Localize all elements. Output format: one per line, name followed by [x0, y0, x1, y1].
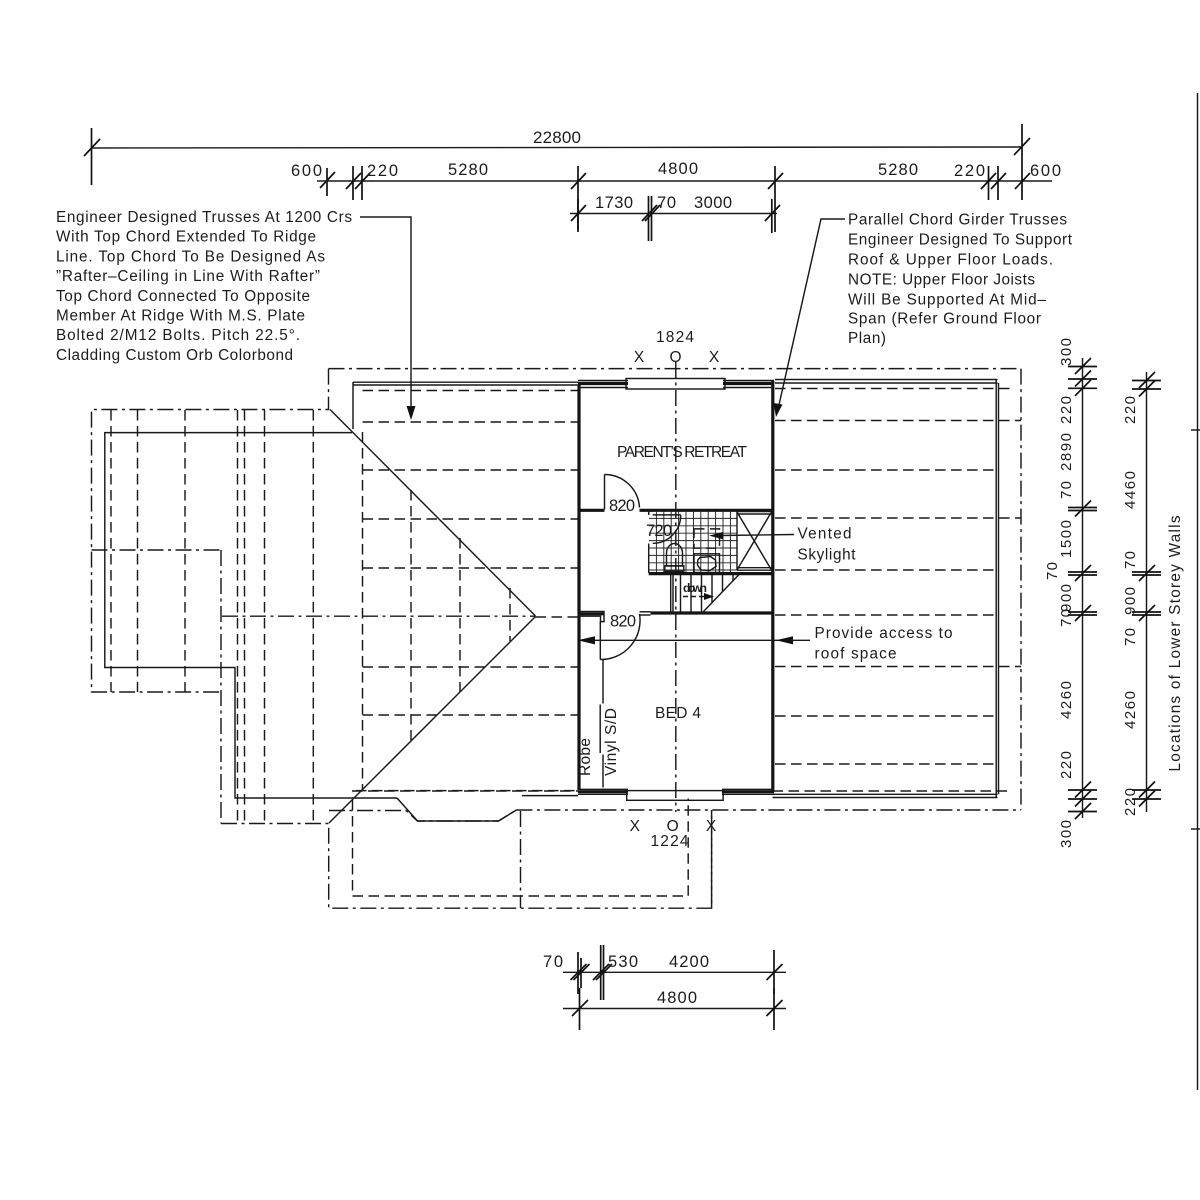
svg-text:roof space: roof space [815, 646, 897, 663]
svg-text:”Rafter–Ceiling in Line With R: ”Rafter–Ceiling in Line With Rafter” [56, 268, 320, 285]
svg-text:1224: 1224 [651, 833, 689, 850]
left lower-storey wall outline (solid) [105, 433, 397, 798]
leader arrow from right note to girder wall [774, 219, 846, 417]
svg-text:70: 70 [543, 953, 563, 971]
main roof left edge [353, 382, 578, 429]
svg-text:Plan): Plan) [848, 330, 886, 347]
svg-text:Top Chord Connected To Opposit: Top Chord Connected To Opposite [56, 288, 310, 305]
door 820 lower: leaf and swing [600, 613, 640, 660]
svg-text:X: X [630, 818, 641, 835]
svg-text:720: 720 [646, 522, 672, 540]
vanity with basin [694, 554, 720, 573]
svg-text:70: 70 [1044, 562, 1061, 580]
svg-text:Parallel Chord Girder Trusses: Parallel Chord Girder Trusses [848, 212, 1067, 229]
svg-text:Robe: Robe [577, 738, 594, 776]
right inner dimension line (300/220/2890/70/1500/70/900/70/4260/220/300) [1044, 338, 1097, 848]
sheet right border [1191, 93, 1200, 1090]
lower storey dashed rectangle below [353, 799, 689, 897]
svg-text:Line. Top Chord To Be Designed: Line. Top Chord To Be Designed As [56, 248, 325, 265]
svg-text:820: 820 [609, 497, 635, 515]
svg-text:Span (Refer Ground Floor: Span (Refer Ground Floor [848, 311, 1041, 328]
stairwell side wall [671, 575, 673, 612]
svg-text:220: 220 [1122, 396, 1139, 424]
svg-text:530: 530 [608, 953, 638, 971]
bathroom left wall and top step [649, 511, 653, 573]
svg-text:220: 220 [1058, 396, 1075, 424]
stair treads [681, 575, 734, 612]
wall parents retreat / bath with 820 door opening [578, 509, 773, 512]
window markers X O X 1224 (bottom) [630, 818, 717, 850]
svg-text:4460: 4460 [1122, 471, 1139, 509]
svg-text:4260: 4260 [1058, 681, 1075, 719]
svg-text:Locations of Lower Storey Wal: Locations of Lower Storey Walls [1167, 515, 1184, 771]
svg-text:70: 70 [1122, 551, 1139, 569]
right outer dimension line (220/4460/70/900/70/4260/220) [1122, 372, 1161, 816]
svg-text:900: 900 [1058, 584, 1075, 612]
svg-text:Member At Ridge With M.S. Plat: Member At Ridge With M.S. Plate [56, 308, 305, 325]
roof trusses right of unit (dashed) [775, 421, 1021, 765]
svg-text:1824: 1824 [656, 329, 694, 346]
svg-text:220: 220 [1122, 788, 1139, 816]
shower / skylight shaft over (dashed rect) [694, 529, 720, 548]
svg-text:900: 900 [1122, 587, 1139, 615]
svg-text:Cladding Custom Orb Colorbond: Cladding Custom Orb Colorbond [56, 347, 293, 364]
top wall hidden line left of unit (dashed) [363, 390, 579, 392]
bottom dimension line 4800 [563, 988, 786, 1030]
svg-text:down: down [683, 581, 707, 595]
svg-text:5280: 5280 [448, 161, 488, 179]
stair break diagonal [704, 575, 740, 612]
svg-text:O: O [669, 349, 681, 366]
svg-text:4800: 4800 [657, 989, 697, 1007]
svg-text:300: 300 [1058, 338, 1075, 366]
stairwell bottom wall [651, 611, 773, 614]
svg-text:820: 820 [610, 613, 636, 631]
svg-text:Provide access to: Provide access to [815, 625, 953, 642]
note: parallel chord girder trusses (right) [848, 212, 1073, 348]
svg-text:220: 220 [367, 162, 398, 180]
svg-text:Will Be Supported At Mid–: Will Be Supported At Mid– [848, 292, 1046, 309]
leader: provide access to roof space (double arrow) [578, 625, 953, 663]
svg-text:Vented: Vented [798, 526, 852, 543]
bottom dimension line 70/530/4200 [543, 945, 786, 1000]
window markers 1824 X O X (top) [634, 329, 720, 366]
porch step solid edges bottom-left [352, 791, 578, 821]
leader arrow from left note to roof truss [360, 217, 416, 420]
door 720 bath: leaf and swing [646, 515, 681, 543]
svg-text:300: 300 [1058, 820, 1075, 848]
svg-text:4200: 4200 [669, 953, 709, 971]
hidden wall lines right of unit (dashed) [773, 389, 1013, 792]
hidden grid verticals below bottom wall [711, 810, 713, 908]
svg-text:22800: 22800 [533, 128, 581, 147]
svg-text:600: 600 [1030, 162, 1061, 180]
note: engineer designed trusses (left) [56, 209, 352, 364]
vented skylight box with cross [737, 512, 772, 571]
svg-text:70: 70 [1122, 628, 1139, 646]
svg-text:70: 70 [1058, 481, 1075, 499]
wall bath bottom [649, 572, 773, 575]
svg-text:PARENT’S RETREAT: PARENT’S RETREAT [617, 444, 748, 461]
left roof truss verticals (dashed) [111, 410, 313, 823]
left roof gutter outline (dash-dot) [92, 369, 712, 909]
svg-text:220: 220 [954, 162, 985, 180]
svg-text:With Top Chord Extended To Rid: With Top Chord Extended To Ridge [56, 229, 316, 246]
unit left wall [577, 385, 580, 790]
svg-text:70: 70 [657, 194, 676, 212]
unit right wall [771, 381, 774, 792]
upper hip line [330, 410, 536, 617]
unit top wall with window 1824 [578, 379, 774, 390]
down label and arrow [683, 581, 714, 600]
dimension string 1730/70/3000 [570, 194, 780, 241]
svg-text:1500: 1500 [1058, 520, 1075, 558]
toilet [665, 544, 684, 572]
main roof dash-dot gutter top/right/bottom [329, 369, 1022, 908]
svg-text:3000: 3000 [694, 194, 732, 212]
roof trusses left of unit (dashed) [363, 422, 579, 715]
svg-text:1730: 1730 [595, 194, 633, 212]
svg-text:Engineer Designed To Support: Engineer Designed To Support [848, 232, 1073, 249]
lower hip line [329, 617, 536, 824]
svg-text:2890: 2890 [1058, 433, 1075, 471]
right roof edge (solid) [773, 380, 999, 798]
svg-text:4260: 4260 [1122, 691, 1139, 729]
unit centreline (dash-dot vertical) [675, 362, 677, 812]
bathroom tiled floor grid [649, 511, 737, 573]
ridge centreline [222, 615, 536, 617]
svg-text:X: X [709, 349, 720, 366]
dimension string 600/220/5280/4800/5280/220/600 [291, 160, 1061, 232]
svg-text:70: 70 [1058, 609, 1075, 627]
svg-text:Bolted 2/M12 Bolts. Pitch 22.5: Bolted 2/M12 Bolts. Pitch 22.5°. [56, 327, 300, 344]
svg-text:220: 220 [1058, 751, 1075, 779]
wall bed4 top with 820 door opening [579, 612, 651, 622]
svg-text:NOTE: Upper Floor Joists: NOTE: Upper Floor Joists [848, 272, 1035, 289]
svg-text:Engineer Designed Trusses At 1: Engineer Designed Trusses At 1200 Crs [56, 209, 352, 226]
truss verticals between hips [363, 432, 511, 790]
svg-text:5280: 5280 [878, 161, 918, 179]
svg-text:Roof & Upper Floor Loads.: Roof & Upper Floor Loads. [848, 252, 1053, 269]
dimension 22800 overall width [84, 124, 1030, 185]
robe sliding door (Vinyl S/D) [600, 659, 603, 788]
svg-text:X: X [634, 349, 645, 366]
svg-text:Skylight: Skylight [798, 547, 857, 564]
svg-text:Vinyl S/D: Vinyl S/D [603, 708, 620, 776]
bottom wall hidden line left of unit (dashed) [356, 790, 578, 792]
leader: vented skylight [709, 526, 856, 564]
unit bottom wall with window 1224 [578, 789, 774, 800]
svg-text:BED 4: BED 4 [655, 705, 701, 722]
svg-text:600: 600 [291, 162, 322, 180]
door 820 upper: leaf and swing [605, 474, 640, 515]
svg-text:4800: 4800 [658, 160, 698, 178]
